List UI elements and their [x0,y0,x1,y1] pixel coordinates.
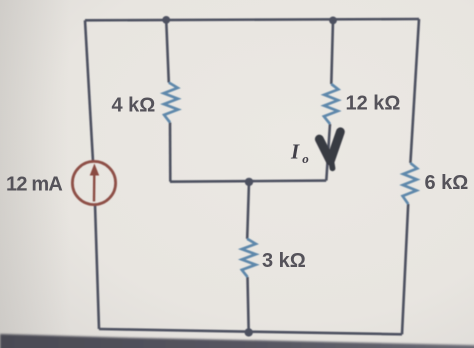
left edge shading [0,0,70,348]
wire branch 12k upper [331,21,333,85]
svg-text:12 kΩ: 12 kΩ [346,93,401,115]
node bottom junction [245,328,253,336]
wire top [85,19,419,20]
Io bold arrow [319,132,340,169]
resistor R2 12k zigzag [324,84,338,124]
wire left lower [95,205,99,330]
node middle junction [245,178,253,186]
current source arrowhead [90,164,100,176]
resistor R3 6k zigzag [403,163,418,204]
wire branch 12k lower [326,124,330,181]
wire branch 3k lower [248,277,249,332]
wire bottom [99,329,402,334]
resistor R4 3k zigzag [242,239,256,277]
node top-left junction [162,16,170,24]
current source I1 circle [72,161,115,204]
wire middle [170,181,326,182]
svg-text:3 kΩ: 3 kΩ [262,250,306,272]
wire branch 4k upper [166,20,169,83]
svg-text:12 mA: 12 mA [6,174,62,196]
current source arrow shaft [93,173,96,202]
wire branch 4k lower [169,123,172,182]
wire branch 3k upper [247,182,249,239]
node top-right junction [329,17,337,25]
bottom dark band (photo edge) [0,334,474,348]
wire right upper [410,19,419,163]
wire right lower [402,204,408,334]
resistor R1 4k zigzag [164,83,178,123]
svg-text:6 kΩ: 6 kΩ [425,172,469,194]
wire left upper [85,20,93,161]
svg-text:4 kΩ: 4 kΩ [112,94,156,116]
